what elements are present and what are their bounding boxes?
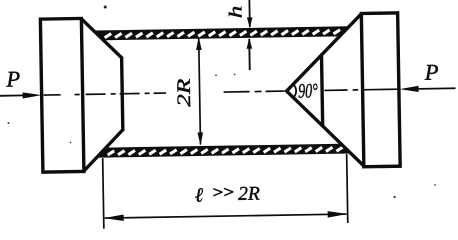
svg-text:>>: >> [212,184,234,201]
svg-text:ℓ: ℓ [195,184,204,206]
svg-text:2R: 2R [174,78,195,107]
svg-text:P: P [5,66,20,91]
svg-text:P: P [424,60,439,85]
svg-text:h: h [226,6,246,19]
svg-text:2R: 2R [238,183,260,204]
svg-text:90°: 90° [298,80,318,102]
